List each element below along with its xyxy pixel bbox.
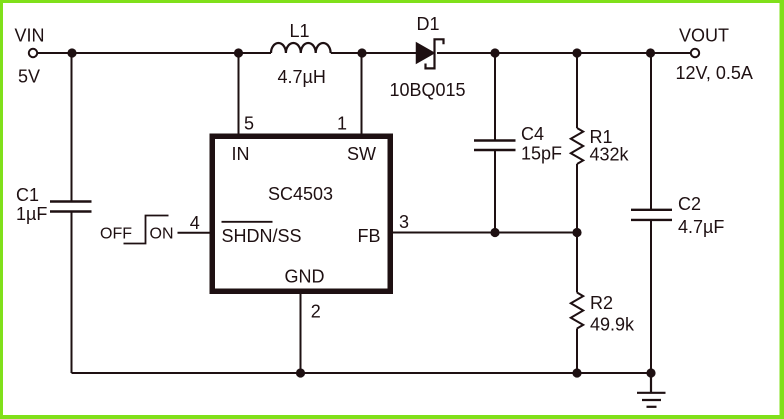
terminal VIN bbox=[29, 49, 37, 57]
wire pin 2 (GND) to bottom rail bbox=[300, 294, 302, 374]
junction node C2 bottom/ground bbox=[646, 368, 655, 377]
junction node VIN/C1 bbox=[67, 48, 76, 57]
wire L1 right lead to D1 anode bbox=[331, 52, 417, 54]
svg-text:SW: SW bbox=[347, 144, 376, 164]
svg-text:5V: 5V bbox=[18, 67, 40, 87]
svg-text:L1: L1 bbox=[290, 21, 310, 41]
svg-text:SHDN/SS: SHDN/SS bbox=[222, 226, 302, 246]
svg-text:C4: C4 bbox=[521, 124, 544, 144]
wire R2 top bbox=[576, 233, 578, 293]
svg-text:1µF: 1µF bbox=[16, 204, 47, 224]
svg-text:FB: FB bbox=[358, 226, 381, 246]
svg-text:3: 3 bbox=[399, 212, 409, 232]
terminal VOUT bbox=[691, 49, 699, 57]
capacitor C1 plates bbox=[50, 202, 92, 212]
junction node C2 top bbox=[646, 48, 655, 57]
svg-text:D1: D1 bbox=[417, 14, 440, 34]
svg-text:4: 4 bbox=[190, 213, 200, 233]
svg-text:SC4503: SC4503 bbox=[268, 184, 333, 204]
svg-text:VOUT: VOUT bbox=[679, 25, 729, 45]
wire pin 5 (IN) bbox=[238, 53, 240, 134]
wire left rail lower (C1 down to bottom rail) bbox=[71, 212, 73, 374]
inductor L1 bbox=[271, 43, 331, 53]
junction node C4/FB bbox=[490, 228, 499, 237]
wire R1 bottom bbox=[576, 164, 578, 233]
wire C4 bottom bbox=[494, 150, 496, 233]
svg-text:ON: ON bbox=[150, 226, 174, 243]
on/off step waveform bbox=[124, 216, 169, 244]
svg-text:12V, 0.5A: 12V, 0.5A bbox=[676, 63, 753, 83]
svg-text:C1: C1 bbox=[16, 185, 39, 205]
svg-text:1: 1 bbox=[337, 114, 347, 134]
svg-text:10BQ015: 10BQ015 bbox=[390, 80, 466, 100]
wire pin 3 (FB) to divider bbox=[393, 232, 578, 234]
wire C2 bottom bbox=[650, 220, 652, 373]
junction node R1 top bbox=[572, 48, 581, 57]
svg-text:C2: C2 bbox=[678, 194, 701, 214]
svg-text:432k: 432k bbox=[590, 145, 630, 165]
svg-text:R2: R2 bbox=[590, 293, 613, 313]
svg-text:IN: IN bbox=[232, 144, 250, 164]
capacitor C2 plates bbox=[631, 210, 672, 220]
svg-text:OFF: OFF bbox=[100, 226, 132, 243]
wire left rail upper (VIN node down to C1) bbox=[71, 53, 73, 202]
wire C4 top bbox=[494, 53, 496, 141]
wire bottom rail bbox=[72, 372, 652, 374]
wire R2 bottom bbox=[576, 329, 578, 374]
resistor R2 zigzag bbox=[571, 293, 583, 329]
junction node pin5 bbox=[234, 48, 243, 57]
junction node R2 bottom bbox=[572, 368, 581, 377]
wire C2 top bbox=[650, 53, 652, 210]
overline over SHDN bbox=[222, 221, 273, 223]
svg-text:2: 2 bbox=[311, 302, 321, 322]
ground symbol bbox=[637, 373, 666, 407]
diode D1 schottky cathode bar bbox=[426, 39, 444, 68]
svg-text:4.7µH: 4.7µH bbox=[278, 67, 326, 87]
resistor R1 zigzag bbox=[571, 128, 583, 164]
svg-text:GND: GND bbox=[285, 267, 325, 287]
svg-text:49.9k: 49.9k bbox=[590, 315, 635, 335]
wire pin 4 (SHDN) bbox=[178, 232, 211, 234]
wire D1 cathode to VOUT terminal bbox=[437, 52, 691, 54]
junction node GND pin2 bbox=[296, 368, 305, 377]
junction node C4 top bbox=[490, 48, 499, 57]
wire R1 top bbox=[576, 53, 578, 128]
IC U1 SC4503 box bbox=[212, 136, 390, 291]
capacitor C4 plates bbox=[474, 141, 516, 151]
svg-text:15pF: 15pF bbox=[521, 144, 562, 164]
junction node SW/pin1 bbox=[357, 48, 366, 57]
svg-text:5: 5 bbox=[244, 114, 254, 134]
junction node R1/R2/FB bbox=[572, 228, 581, 237]
wire VIN terminal to L1 left lead bbox=[37, 52, 271, 54]
svg-text:4.7µF: 4.7µF bbox=[678, 217, 724, 237]
wire pin 1 (SW) bbox=[361, 53, 363, 134]
svg-text:VIN: VIN bbox=[15, 26, 45, 46]
diode D1 triangle bbox=[417, 43, 435, 63]
